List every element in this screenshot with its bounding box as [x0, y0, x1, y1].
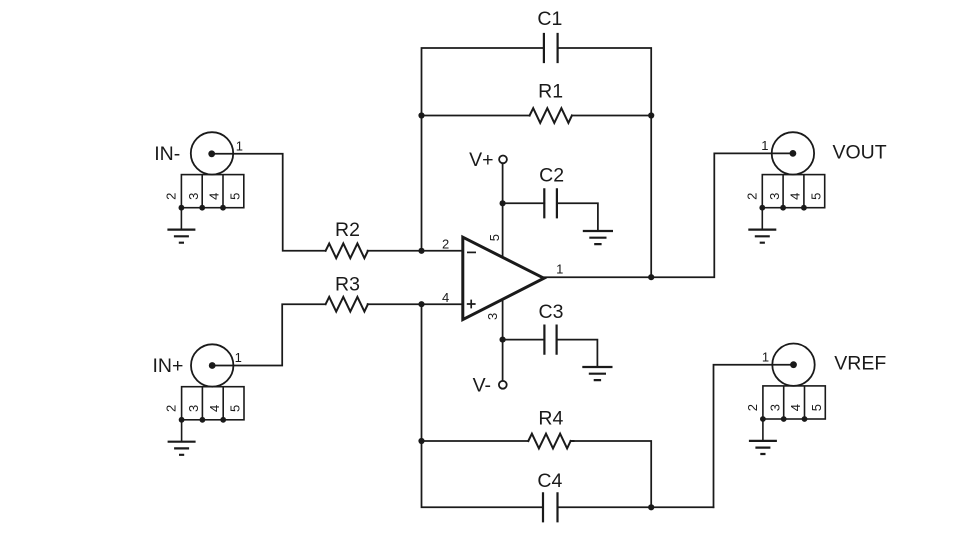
svg-text:VOUT: VOUT	[833, 141, 887, 163]
svg-text:4: 4	[442, 290, 449, 305]
svg-text:IN-: IN-	[154, 143, 180, 165]
svg-text:VREF: VREF	[834, 353, 886, 375]
svg-text:R4: R4	[538, 407, 563, 429]
svg-text:3: 3	[186, 193, 201, 200]
svg-text:V-: V-	[473, 374, 491, 396]
svg-text:1: 1	[762, 350, 769, 365]
svg-text:R3: R3	[335, 274, 360, 296]
svg-text:1: 1	[236, 138, 243, 153]
svg-text:C4: C4	[537, 470, 562, 492]
svg-text:5: 5	[228, 193, 243, 200]
svg-text:1: 1	[556, 261, 563, 276]
svg-text:2: 2	[744, 193, 759, 200]
svg-text:IN+: IN+	[152, 355, 183, 377]
svg-text:R1: R1	[538, 80, 563, 102]
svg-text:4: 4	[207, 405, 222, 412]
svg-text:2: 2	[164, 405, 179, 412]
svg-text:R2: R2	[335, 219, 360, 241]
svg-text:3: 3	[767, 404, 782, 411]
svg-text:5: 5	[809, 404, 824, 411]
svg-text:2: 2	[745, 404, 760, 411]
svg-text:3: 3	[485, 313, 500, 320]
svg-text:3: 3	[186, 405, 201, 412]
svg-text:4: 4	[207, 193, 222, 200]
svg-text:5: 5	[808, 193, 823, 200]
svg-text:4: 4	[788, 193, 803, 200]
svg-text:2: 2	[442, 237, 449, 252]
svg-text:5: 5	[228, 405, 243, 412]
svg-text:3: 3	[767, 193, 782, 200]
svg-text:4: 4	[788, 404, 803, 411]
svg-text:C2: C2	[539, 164, 564, 186]
svg-text:1: 1	[235, 350, 242, 365]
svg-text:1: 1	[761, 138, 768, 153]
svg-text:2: 2	[163, 193, 178, 200]
svg-text:5: 5	[487, 234, 502, 241]
svg-text:V+: V+	[469, 149, 493, 171]
svg-text:C1: C1	[537, 8, 562, 30]
svg-text:C3: C3	[539, 301, 564, 323]
